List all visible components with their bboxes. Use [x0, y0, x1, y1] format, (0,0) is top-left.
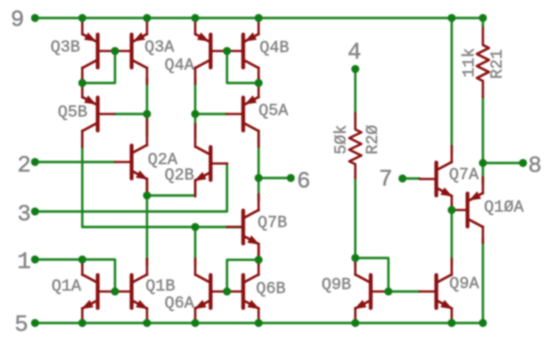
- svg-text:Q1ØA: Q1ØA: [484, 198, 524, 217]
- transistor Q1A: [81, 259, 114, 320]
- junction Q5A base node: [191, 110, 199, 118]
- wire Q6B collector stub: [257, 260, 259, 265]
- junction ground Q10A collector: [479, 319, 487, 327]
- node pin 3 terminal: [31, 208, 39, 216]
- svg-text:7: 7: [379, 167, 393, 193]
- junction Q4B collector Q5A emitter: [255, 79, 263, 87]
- svg-text:Q5B: Q5B: [58, 102, 88, 121]
- transistor Q9B: [354, 259, 387, 320]
- wire Q7B base run (horizontal): [82, 226, 242, 228]
- junction Q7A emitter Q10A base Q9A collector: [448, 206, 456, 214]
- junction Q6 bases: [223, 288, 231, 296]
- node pin 7 terminal: [399, 175, 407, 183]
- svg-text:R2Ø: R2Ø: [363, 125, 382, 155]
- wire Q2B emitter stub: [194, 181, 196, 196]
- wire Q2A collector drop: [146, 114, 148, 136]
- junction top rail Q4A emitter: [191, 14, 199, 22]
- wire Q6B collector to Q6 base riser: [227, 260, 259, 292]
- junction pin6 Q7B collector: [255, 174, 263, 182]
- transistor Q7B: [227, 194, 260, 260]
- junction Q9B collector R20: [351, 254, 359, 262]
- svg-text:11k: 11k: [459, 48, 478, 78]
- resistor R20: [349, 113, 361, 178]
- junction Q6B collector Q7B emitter: [255, 256, 263, 264]
- svg-text:9: 9: [11, 7, 25, 33]
- wire Q7A collector to top rail: [451, 18, 453, 153]
- wire Q4A collector to Q5A base node: [194, 78, 196, 114]
- wire Q5B collector to Q7B base run (vertical): [81, 131, 83, 227]
- junction Q5B base node: [143, 110, 151, 118]
- wire Q5A collector to pin6 node: [257, 131, 259, 201]
- svg-text:5Øk: 5Øk: [332, 125, 351, 155]
- svg-text:8: 8: [528, 153, 542, 179]
- node pin 6 terminal: [287, 174, 295, 182]
- wire pin 4 to R20: [354, 69, 356, 114]
- svg-text:Q3A: Q3A: [145, 37, 175, 56]
- junction top rail Q4B emitter: [255, 14, 263, 22]
- transistor Q7A: [420, 146, 453, 212]
- wire pin 1 to Q1 base riser: [35, 260, 115, 292]
- wire pin 3 to Q2B base riser: [35, 164, 227, 212]
- svg-text:Q5A: Q5A: [259, 101, 289, 120]
- junction top rail Q3A emitter: [143, 14, 151, 22]
- junction top rail Q7A collector: [448, 14, 456, 22]
- node pin 4 terminal: [351, 65, 359, 73]
- junction Q9 bases: [384, 288, 392, 296]
- svg-text:Q9B: Q9B: [322, 275, 352, 294]
- wire Q9B collector to Q9 base riser: [355, 258, 388, 292]
- junction ground pin5: [31, 319, 39, 327]
- wire R21 to pin8 node: [482, 96, 484, 163]
- svg-text:Q3B: Q3B: [51, 37, 81, 56]
- junction top rail Q3B emitter: [78, 14, 86, 22]
- transistor Q6B: [227, 259, 260, 320]
- svg-text:3: 3: [17, 202, 31, 228]
- transistor Q6A: [194, 259, 227, 320]
- wire Q1 base link: [113, 290, 116, 292]
- wire Q2 emitters junction to Q1B collector: [146, 196, 148, 266]
- wire Q9B collector stub to node: [354, 258, 356, 265]
- wire Q10A collector to ground: [482, 238, 484, 323]
- node pin 8 terminal: [519, 159, 527, 167]
- wire R21 top lead: [482, 18, 484, 26]
- junction ground Q6A emitter: [191, 319, 199, 327]
- svg-text:Q7A: Q7A: [449, 165, 479, 184]
- wire ground bottom rail (pin 5 net): [35, 322, 483, 324]
- wire Q9 base link: [387, 290, 419, 292]
- svg-text:Q4B: Q4B: [260, 38, 290, 57]
- transistor Q4B: [227, 20, 259, 84]
- transistor Q2B: [194, 124, 227, 197]
- junction Q1 bases: [111, 288, 119, 296]
- junction ground Q9B emitter: [351, 319, 359, 327]
- wire Q3A collector to Q5B base node: [146, 78, 148, 114]
- junction ground Q9A emitter: [448, 319, 456, 327]
- svg-text:Q2B: Q2B: [165, 165, 195, 184]
- svg-text:2: 2: [17, 153, 31, 179]
- transistor Q5A: [227, 81, 259, 147]
- transistor Q9A: [420, 259, 453, 320]
- junction Q6A collector on Q7B base wire: [191, 223, 199, 231]
- wire pin 7 to Q7A base: [403, 177, 420, 179]
- wire V+ top rail: [35, 17, 483, 19]
- wire Q5B base to node: [114, 113, 147, 115]
- svg-text:Q7B: Q7B: [258, 213, 288, 232]
- junction Q2 emitters: [143, 192, 151, 200]
- svg-text:Q6A: Q6A: [165, 293, 195, 312]
- junction top rail R21: [479, 14, 487, 22]
- wire pin 8 stub: [483, 162, 523, 164]
- wire Q6A collector riser: [194, 227, 196, 265]
- junction pin1 Q1A collector: [78, 256, 86, 264]
- wire Q10A emitter drop: [482, 163, 484, 184]
- wire pin 2 to Q2A base: [35, 161, 115, 163]
- wire Q3B collector stub to node: [81, 77, 83, 83]
- junction ground Q1A emitter: [78, 319, 86, 327]
- junction pair1 bases: [111, 47, 119, 55]
- transistor Q4A: [195, 20, 227, 84]
- svg-text:4: 4: [348, 40, 362, 66]
- junction pin8 node: [479, 159, 487, 167]
- wire Q2B collector drop: [194, 114, 196, 138]
- transistor Q3B: [82, 20, 114, 84]
- wire Q7B emitter stub: [257, 244, 259, 260]
- transistor Q2A: [115, 118, 148, 195]
- junction Q3B collector Q5B emitter: [78, 79, 86, 87]
- wire Q6 base link: [225, 290, 228, 292]
- wire Q7A emitter node to Q9A collector: [451, 210, 453, 265]
- wire Q5A base to node: [195, 113, 226, 115]
- transistor Q5B: [82, 81, 114, 147]
- svg-text:Q1A: Q1A: [52, 276, 82, 295]
- svg-text:5: 5: [15, 312, 29, 338]
- wire R20 to Q9B collector node: [354, 177, 356, 258]
- wire Q2A emitter stub: [146, 179, 148, 196]
- svg-text:R21: R21: [487, 49, 506, 79]
- transistor Q3A: [115, 20, 147, 84]
- wire Q7A emitter stub: [451, 204, 453, 210]
- wire pair1 base riser to node: [82, 51, 115, 83]
- junction ground Q1B emitter: [143, 319, 151, 327]
- transistor Q10A: [451, 177, 483, 243]
- wire Q1A collector stub to pin1 node: [81, 260, 83, 266]
- svg-text:Q9A: Q9A: [449, 274, 479, 293]
- node pin 1 terminal: [31, 256, 39, 264]
- junction ground Q6B emitter: [255, 319, 263, 327]
- wire pair2 base riser to node: [227, 51, 259, 83]
- junction top rail pin9: [31, 14, 39, 22]
- resistor R21: [477, 24, 489, 97]
- wire Q2B emitter jog to Q2A emitter node: [147, 194, 195, 196]
- transistor Q1B: [115, 259, 148, 320]
- wire pin 6 stub: [259, 177, 291, 179]
- svg-text:1: 1: [17, 249, 31, 275]
- wire Q4B collector stub to node: [257, 77, 259, 83]
- svg-text:6: 6: [297, 169, 311, 195]
- node pin 2 terminal: [31, 158, 39, 166]
- svg-text:Q6B: Q6B: [256, 279, 286, 298]
- junction pair2 bases: [223, 47, 231, 55]
- svg-text:Q4A: Q4A: [165, 56, 195, 75]
